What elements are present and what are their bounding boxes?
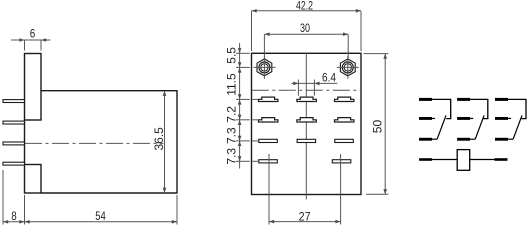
svg-text:8: 8 bbox=[11, 209, 17, 223]
terminal row4 right (flat pin) bbox=[332, 160, 351, 163]
svg-text:42.2: 42.2 bbox=[296, 0, 313, 13]
terminal row2 left (hat pin) bbox=[259, 118, 278, 122]
mounting hole right (hex bushing) bbox=[337, 56, 359, 79]
pin 2 (side view) bbox=[3, 121, 25, 124]
svg-text:7.3: 7.3 bbox=[225, 148, 239, 165]
dimension 7.3 upper bbox=[225, 127, 239, 144]
terminal row3 center (flat pin) bbox=[297, 139, 316, 142]
terminal row1 left (hat pin) bbox=[259, 97, 278, 101]
reference line row3 bbox=[236, 136, 258, 146]
reference line row4 bbox=[236, 156, 258, 161]
contact 1 fixed contact wire bbox=[432, 99, 451, 118]
terminal row3 left (flat pin) bbox=[259, 139, 278, 142]
svg-text:6: 6 bbox=[30, 26, 36, 40]
reference line base top bbox=[236, 48, 250, 53]
dimension 50 (base length) bbox=[364, 54, 389, 195]
reference line row1 bbox=[236, 94, 258, 104]
contact 3 common terminal bbox=[495, 117, 511, 120]
coil terminal right bbox=[495, 158, 508, 161]
svg-text:7.3: 7.3 bbox=[225, 127, 239, 144]
relay base outline (bottom view) bbox=[252, 53, 362, 194]
dimension 7.2 bbox=[225, 106, 239, 123]
relay body outline (side view) bbox=[41, 91, 177, 193]
contact 2 moving blade bbox=[475, 115, 484, 139]
dimension 36.5 (body height) bbox=[152, 91, 167, 193]
svg-text:50: 50 bbox=[370, 120, 384, 134]
dimension 8 (pin length) bbox=[3, 170, 25, 225]
dimension 42.2 (base width) bbox=[252, 0, 362, 51]
svg-text:6.4: 6.4 bbox=[322, 70, 336, 84]
dimension 30 (hole spacing) bbox=[264, 21, 348, 58]
contact 3 moving blade bbox=[513, 115, 522, 139]
dimension 54 (overall depth) bbox=[25, 195, 178, 225]
upper flange tab bbox=[25, 54, 42, 121]
terminal row2 right (hat pin) bbox=[335, 118, 354, 122]
vertical centerline (bottom view) bbox=[305, 53, 307, 199]
coil wire left bbox=[432, 159, 457, 161]
mounting hole left (hex bushing) bbox=[253, 56, 275, 79]
terminal row4 left (flat pin) bbox=[259, 160, 278, 163]
svg-text:54: 54 bbox=[95, 209, 106, 223]
horizontal centerline (bottom view) bbox=[252, 89, 361, 91]
svg-text:5.5: 5.5 bbox=[225, 47, 239, 64]
svg-text:27: 27 bbox=[299, 210, 311, 224]
svg-text:36.5: 36.5 bbox=[152, 127, 166, 151]
dimension 6.4 (center pin width) bbox=[292, 70, 338, 95]
flange left edge wire bbox=[24, 120, 26, 165]
svg-text:11.5: 11.5 bbox=[225, 73, 239, 96]
contact 3 NO terminal bbox=[495, 98, 508, 101]
dimension 11.5 bbox=[225, 73, 239, 96]
contact 2 fixed contact wire bbox=[470, 99, 488, 118]
left dimension stack line bbox=[239, 43, 241, 169]
centerline (side view axis) bbox=[25, 142, 164, 144]
coil terminal left bbox=[419, 158, 432, 161]
pin 3 (side view) bbox=[3, 142, 25, 145]
contact 2 common terminal bbox=[457, 117, 473, 120]
contact 3 fixed contact wire bbox=[508, 99, 526, 118]
svg-text:30: 30 bbox=[300, 21, 310, 35]
dimension 27 (bottom pin spacing) bbox=[269, 154, 341, 225]
dimension 7.3 lower bbox=[225, 148, 239, 165]
contact 2 NC terminal bbox=[457, 138, 475, 141]
dimension 6 (flange width) bbox=[11, 26, 51, 50]
contact 1 common terminal bbox=[419, 117, 435, 120]
pin 4 (side view) bbox=[3, 162, 25, 165]
coil body bbox=[457, 150, 470, 171]
terminal row2 center (hat pin) bbox=[297, 118, 316, 122]
terminal row1 center (hat pin) bbox=[297, 97, 316, 101]
reference line hole axis bbox=[236, 62, 250, 72]
contact 2 NO terminal bbox=[457, 98, 470, 101]
contact 1 NO terminal bbox=[419, 98, 432, 101]
contact 1 NC terminal bbox=[419, 138, 437, 141]
svg-text:7.2: 7.2 bbox=[225, 106, 239, 123]
lower flange tab bbox=[25, 165, 42, 194]
contact 1 moving blade bbox=[437, 115, 446, 139]
contact 3 NC terminal bbox=[495, 138, 513, 141]
reference line row2 bbox=[236, 115, 258, 125]
dimension 5.5 bbox=[225, 47, 239, 64]
terminal row3 right (flat pin) bbox=[335, 139, 354, 142]
pin 1 (side view) bbox=[3, 100, 25, 103]
coil wire right bbox=[470, 159, 495, 161]
terminal row1 right (hat pin) bbox=[335, 97, 354, 101]
